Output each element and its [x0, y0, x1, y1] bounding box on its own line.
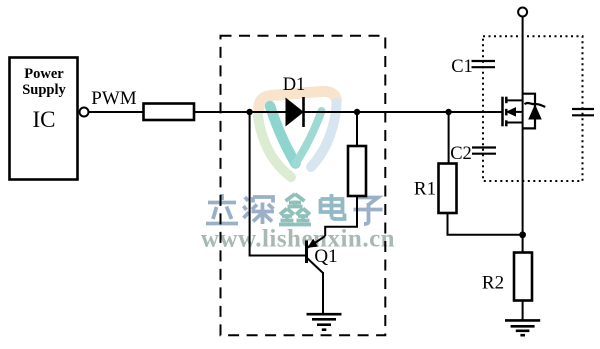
wire Q1 collector to ground [322, 272, 324, 314]
子 [354, 198, 383, 225]
svg-text:D1: D1 [283, 75, 306, 95]
wire IC to resistor [89, 111, 144, 113]
svg-text:C1: C1 [451, 57, 473, 77]
junction node R1/R2/source [519, 231, 526, 238]
svg-text:C2: C2 [450, 144, 472, 164]
capacitor C2 [450, 144, 496, 164]
power supply IC box [10, 58, 78, 180]
resistor (base bleed, unlabeled) [348, 112, 366, 196]
dotted box (MOSFET package) [483, 36, 583, 181]
wire drain vertical [522, 17, 524, 253]
wire resistor to Q1 emitter [325, 196, 357, 236]
svg-text:IC: IC [33, 107, 56, 132]
鑫 [279, 194, 311, 225]
capacitor C1 [451, 57, 495, 77]
svg-text:R2: R2 [482, 273, 504, 294]
junction node at diode anode [246, 109, 252, 115]
立 [206, 194, 238, 224]
resistor R2 [482, 253, 532, 321]
watermark text 立深鑫电子 [206, 194, 383, 225]
transistor Q1 [307, 236, 338, 273]
dashed box (driver snubber circuit) [221, 36, 386, 336]
svg-text:Q1: Q1 [314, 246, 337, 267]
svg-text:R1: R1 [414, 179, 436, 200]
wire resistor to MOSFET gate [194, 111, 503, 113]
电 [321, 194, 345, 219]
junction node at R1 branch [445, 109, 451, 115]
resistor (PWM series) [144, 104, 195, 121]
ground under Q1 [307, 314, 342, 330]
ground under R2 [505, 320, 540, 335]
terminal circle (drain supply) [518, 8, 527, 17]
wire anode down to Q1 base [250, 112, 305, 256]
capacitor Cds (output, on dotted edge) [572, 109, 594, 115]
watermark logo [258, 91, 337, 177]
深 [244, 197, 275, 224]
svg-text:Supply: Supply [22, 82, 66, 98]
terminal circle at IC output [80, 108, 89, 117]
svg-text:Power: Power [24, 66, 64, 82]
junction node at diode cathode branch [354, 109, 360, 115]
svg-text:PWM: PWM [91, 88, 137, 109]
diode D1 [283, 75, 306, 127]
resistor R1 [414, 112, 520, 235]
svg-text:www.lishenxin.cn: www.lishenxin.cn [201, 226, 395, 253]
MOSFET Q (power switch) [503, 94, 546, 129]
